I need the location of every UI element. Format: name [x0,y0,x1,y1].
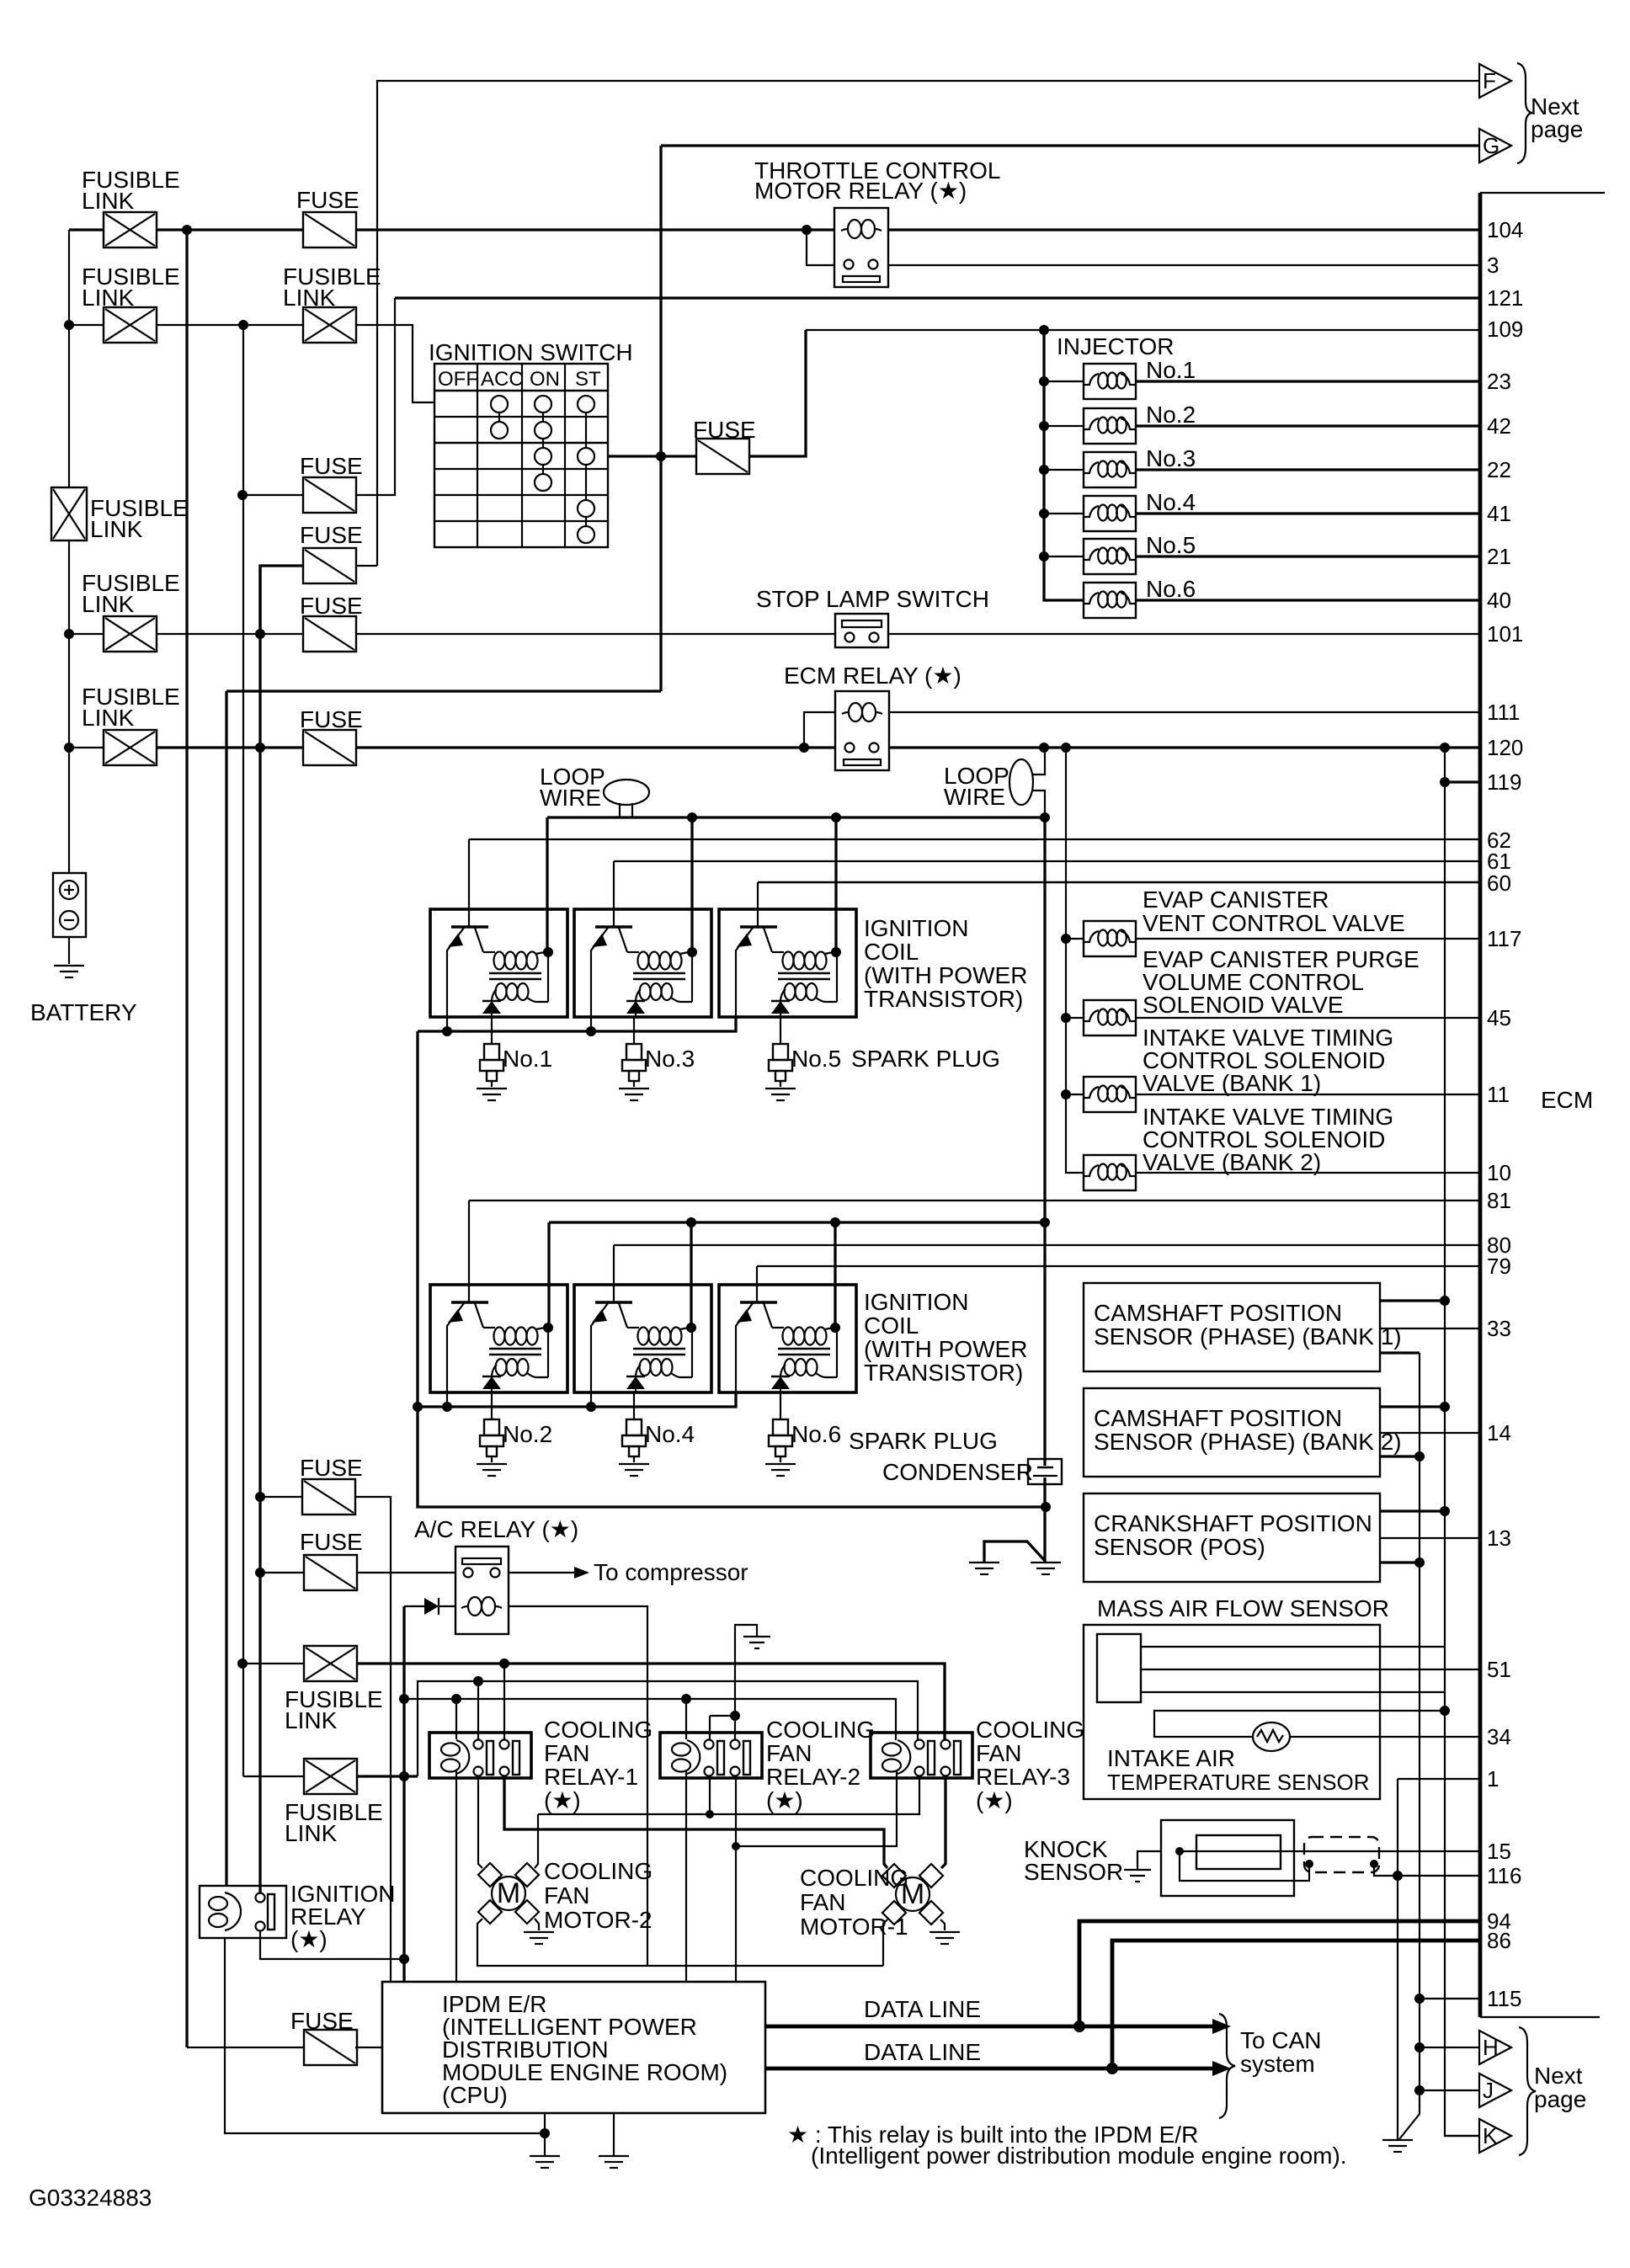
svg-text:IGNITION: IGNITION [864,915,968,941]
svg-text:G: G [1483,133,1499,158]
wire pin 115 [1420,1998,1480,1999]
wire pin109 / injector feed line [806,329,1480,331]
wire injector No.1 to ECM [1136,380,1480,382]
ignition coil 6 power transistor [736,1302,780,1328]
wire relay1 out to motor2 TL [478,1776,482,1868]
svg-text:FUSE: FUSE [296,187,360,213]
label FUSIBLE LINK row 1976 [285,1686,383,1733]
svg-text:TRANSISTOR): TRANSISTOR) [864,1360,1023,1386]
svg-text:No.5: No.5 [791,1046,841,1072]
wire injector No.3 feed [1044,469,1084,471]
label COOLING FAN MOTOR-2 [544,1858,653,1933]
A/C relay coil diode [404,1598,455,1615]
node loop wire bottom tap [1040,812,1050,823]
wire fuse3 row [242,494,303,496]
svg-text:WIRE: WIRE [540,785,601,811]
wire motor1 ground lead [940,1919,945,1930]
wire motor1 return [883,1919,887,1966]
wire y821 ignition feed line [226,689,661,692]
svg-text:VENT CONTROL VALVE: VENT CONTROL VALVE [1143,910,1405,936]
node pin 115 [1414,1994,1425,2004]
label IGNITION COIL (bottom) [864,1289,1027,1386]
svg-text:IGNITION: IGNITION [864,1289,968,1315]
wire IPDM ground 2 [613,2113,615,2155]
wire ignition relay contact out [260,1931,404,1959]
injector No.5 [1084,539,1136,574]
node loop-wire tap on pin120 line [1039,743,1049,753]
wire motor2 return [477,1919,883,1966]
node data2/pin86 [1106,2063,1118,2074]
label COOLING FAN RELAY-2 [766,1717,875,1813]
wire pin 119 stub [1445,780,1480,783]
svg-text:111: 111 [1487,700,1521,725]
cooling fan relay-1 box [429,1733,531,1778]
wire camshaft position sensor bank2 signal pin 14 [1380,1432,1480,1434]
wire camshaft position sensor bank1 signal pin 33 [1380,1328,1480,1329]
intake air temperature sensor element [1253,1722,1290,1751]
wire crankshaft position sensor signal pin 13 [1380,1537,1480,1539]
wire rail x222 (row1 to bottom fuse) [185,230,188,2047]
svg-text:Next: Next [1534,2063,1583,2089]
wire fuse4 output to riser x448 [356,565,377,567]
ignition coil 2 transformer [489,1328,548,1378]
svg-text:LINK: LINK [283,285,336,311]
svg-text:13: 13 [1487,1525,1511,1551]
wire condenser drop x1241 [1043,817,1046,1563]
svg-text:K: K [1483,2123,1498,2148]
svg-text:MOTOR-2: MOTOR-2 [544,1907,653,1933]
ground (IPDM 2) [599,2156,629,2168]
fuse ignition output [696,439,749,474]
wire ignition switch output row [608,330,806,456]
node ground tap [1414,1557,1425,1568]
fusible link row4 [104,730,157,765]
bottom fuse to IPDM [187,2047,382,2048]
wire spark-ground bus (top group) [418,1017,736,1031]
svg-text:A/C RELAY (★): A/C RELAY (★) [414,1516,578,1542]
fusible link row2b [303,307,356,343]
node injector bus No.1 [1039,376,1049,386]
wire relay2 common ground hook [710,1625,757,1739]
svg-text:page: page [1534,2086,1586,2112]
wire coil power line y971 [547,816,1045,818]
IPDM E/R box [382,1982,765,2113]
node fuse3 feed x288 [237,490,248,500]
injector No.3 [1084,452,1136,487]
wire crankshaft position sensor ground [1380,1561,1420,1563]
wire relay3 coil link y2193 [736,1771,897,1846]
label KNOCK SENSOR [1024,1836,1123,1885]
wire throttle relay coil-contact jog [807,230,834,265]
svg-text:LINK: LINK [82,705,135,731]
knock sensor element [1196,1835,1281,1869]
node solenoid bus tap on pin120 line [1061,743,1071,753]
node coil3 power tap [687,812,697,823]
svg-text:60: 60 [1487,870,1511,896]
wire relay2 out y2155 [535,1776,919,1868]
wire relay3 BR to motor1 TR [941,1776,946,1868]
fuse to F [303,548,356,583]
spark plug No.1 [480,1044,503,1087]
node coil5 power tap [831,812,841,823]
wire row1 FL to fuse [157,228,303,231]
svg-text:INTAKE AIR: INTAKE AIR [1107,1745,1235,1771]
svg-text:14: 14 [1487,1420,1511,1445]
arrow data line 2 [1212,2061,1231,2076]
svg-text:STOP LAMP SWITCH: STOP LAMP SWITCH [756,586,989,612]
node coil3 primary [687,947,697,957]
svg-text:TEMPERATURE SENSOR: TEMPERATURE SENSOR [1107,1770,1370,1795]
camshaft position sensor bank2 [1084,1388,1380,1477]
node condenser ground junction [1041,1502,1051,1512]
label COOLING FAN RELAY-3 [976,1717,1084,1813]
ignition coil 1 box [430,909,567,1017]
svg-text:23: 23 [1487,369,1511,394]
svg-text:10: 10 [1487,1160,1511,1185]
fusible link row 2110 [304,1759,357,1794]
ground (coil bus) with tie bar [984,1541,1046,1563]
svg-text:120: 120 [1487,735,1523,760]
ground for spark plug No.1 [477,1089,507,1100]
node throttle relay coil tap [802,225,812,235]
label Next page (bottom) [1534,2063,1586,2112]
node coil6 primary [830,1323,840,1333]
wire relay1 out to motor1 TL (y2173) [504,1776,887,1868]
wire knock sensor signal pin 15 [1180,1850,1480,1852]
wire relay2 coil drop [685,1699,687,1982]
wire to J [1420,2090,1479,2091]
node relay2-BR/relay3-coil tee [732,1842,740,1850]
svg-text:86: 86 [1487,1928,1511,1953]
wire A/C coil return riser x769 [509,1606,647,1966]
ignition coil 3 power transistor [591,927,636,952]
node condenser riser tap [1040,1217,1050,1227]
svg-text:LINK: LINK [82,285,135,311]
label INTAKE VALVE TIMING (BANK 2) [1143,1104,1393,1175]
wire pin61 base line [614,861,1480,927]
svg-text:FUSE: FUSE [300,706,363,732]
svg-text:SOLENOID VALVE: SOLENOID VALVE [1143,992,1344,1018]
wire row3 [69,633,1480,635]
node relay2 coil tap [681,1694,691,1704]
loop wire (left) [604,780,649,817]
svg-text:To CAN: To CAN [1240,2027,1321,2053]
node relay feed rail tap [399,1694,409,1704]
spark plug No.6 [769,1419,792,1462]
label LOOP WIRE (left) [540,764,605,811]
note: relay built into IPDM [787,2122,1198,2148]
node coil4 primary [686,1323,696,1333]
next-page connector K [1479,2119,1511,2153]
fuse row 1778 [302,1479,355,1515]
svg-text:No.1: No.1 [1146,357,1196,383]
wire to K [1445,2135,1479,2137]
wire emitters to bus (bottom group) [447,1392,591,1407]
node coil3 emitter tap [586,1026,596,1036]
svg-text:RELAY-2: RELAY-2 [766,1764,860,1790]
node fuse row 1778 feed [255,1492,265,1502]
wire injector No.2 feed [1044,425,1084,427]
svg-text:page: page [1531,116,1583,142]
svg-text:(WITH POWER: (WITH POWER [864,962,1027,988]
ground (knock sensor) [1124,1870,1151,1882]
wire pin81 base line [469,1201,1480,1302]
node ECM relay jog [799,743,809,753]
wire solenoid valve bus x1266 [1066,748,1084,1173]
node coil4 primary feed tap [686,1217,696,1227]
svg-text:CONDENSER: CONDENSER [882,1459,1033,1485]
svg-text:DATA LINE: DATA LINE [864,2039,981,2065]
node relay1 common feed [499,1658,509,1669]
injector No.2 [1084,408,1136,444]
EVAP canister vent control valve [1084,921,1136,956]
svg-text:FUSE: FUSE [300,522,363,548]
ignition coil 6 box [719,1285,856,1392]
node MAF/IAT tie [1440,1706,1450,1716]
ground (fan motor-2) [524,1932,554,1944]
svg-text:(★): (★) [976,1787,1013,1813]
wire fan relay top feed y1976 [357,1664,945,1740]
svg-text:(WITH POWER: (WITH POWER [864,1336,1027,1362]
wire spark leads top group [492,1017,780,1044]
node shield drain left [1305,1860,1313,1868]
node relay2 common jog [730,1711,740,1721]
wire IAT loop [1154,1711,1480,1737]
label FUSIBLE LINK row2 [82,264,180,311]
next-page connector H [1479,2031,1511,2064]
node row2 x289 [238,320,248,330]
wire solenoid 117 to ECM [1136,938,1480,940]
wire pin 1 [1398,1778,1480,1780]
wire shield/ground bus x1660 [1397,1779,1398,2139]
svg-text:33: 33 [1487,1316,1511,1341]
wire injector No.3 to ECM [1136,468,1480,471]
svg-text:(★): (★) [766,1787,803,1813]
spark plug No.3 [622,1044,646,1087]
label IPDM [442,1991,727,2108]
svg-text:FUSE: FUSE [693,417,756,443]
wire relay coil bus y2018 [404,1699,896,1740]
svg-text:OFF: OFF [438,368,478,391]
wire x496 riser [418,1681,918,1776]
wire row2 [69,325,434,402]
wire motor2 ground lead [535,1919,539,1930]
svg-text:MASS AIR FLOW SENSOR: MASS AIR FLOW SENSOR [1097,1595,1389,1621]
node ground tap [1414,1451,1425,1461]
svg-text:40: 40 [1487,588,1511,613]
node battery rail row3 [64,629,74,639]
wire relay1 feeds [478,1664,504,1739]
svg-text:21: 21 [1487,544,1511,569]
svg-text:22: 22 [1487,457,1511,482]
node coil2 emitter tap [442,1402,452,1412]
svg-text:11: 11 [1487,1082,1510,1107]
node battery rail row2 [64,320,74,330]
svg-text:BATTERY: BATTERY [30,999,137,1025]
svg-text:104: 104 [1487,217,1523,242]
label FUSIBLE LINK row2b [283,264,381,311]
ignition coil 4 box [574,1285,711,1392]
label FUSIBLE LINK row3 [82,570,180,617]
svg-text:34: 34 [1487,1724,1511,1749]
svg-text:CAMSHAFT POSITION: CAMSHAFT POSITION [1094,1405,1342,1431]
node row1/x222 junction [182,225,192,235]
svg-text:116: 116 [1487,1863,1521,1888]
node fuse row 1868 feed [255,1568,265,1578]
svg-text:No.5: No.5 [1146,532,1196,558]
wire sensor supply bus x1716 [1445,748,1479,2136]
node injector bus No.5 [1039,551,1049,562]
svg-text:FAN: FAN [800,1889,845,1915]
brace to CAN [1219,2014,1235,2118]
svg-text:121: 121 [1487,285,1523,311]
wire pin 111 coil line [888,711,1480,713]
wire pin60 base line [758,881,1480,884]
node coil1 emitter tap [442,1026,452,1036]
node injector bus tap [1039,325,1049,335]
svg-text:VALVE (BANK 2): VALVE (BANK 2) [1143,1149,1321,1175]
node row4 x309 [255,743,265,753]
svg-text:LINK: LINK [285,1707,338,1733]
svg-text:FAN: FAN [766,1740,812,1766]
svg-text:H: H [1483,2035,1499,2060]
wire injector No.1 feed [1044,381,1084,382]
wire pin 94 data line [1079,1921,1480,2026]
svg-text:COOLING: COOLING [976,1717,1084,1743]
ground (condenser) [1031,1563,1061,1574]
wire to compressor [509,1572,574,1573]
ignition coil 6 transformer [778,1328,837,1378]
fuse row 1868 [304,1555,357,1590]
wire injector No.5 feed [1044,556,1084,557]
svg-text:SENSOR: SENSOR [1024,1859,1123,1885]
wire camshaft position sensor bank1 supply [1380,1299,1445,1302]
node IPDM ground tie [540,2128,550,2138]
wire FL5 row [242,1663,304,1664]
wire pin79 base line [757,1266,1480,1302]
ignition coil 1 emitter/spark leads [446,950,448,1017]
wire to H [1420,2047,1479,2048]
label IGNITION RELAY [290,1881,395,1952]
svg-text:INJECTOR: INJECTOR [1057,333,1175,359]
MAF inner element [1097,1634,1141,1702]
wire MAF supply [1141,1646,1445,1648]
svg-text:SENSOR (POS): SENSOR (POS) [1094,1534,1265,1560]
ground (IPDM 1) [530,2156,560,2168]
brace next page (top) [1517,63,1532,163]
node coil5 primary [831,947,841,957]
ECM relay [835,691,889,770]
intake valve timing control solenoid valve bank2 [1084,1155,1136,1190]
wire camshaft position sensor bank1 ground [1380,1351,1420,1354]
node supply tap 13 [1440,1506,1450,1516]
svg-text:51: 51 [1487,1657,1511,1682]
svg-text:FUSE: FUSE [300,453,363,479]
ignition coil 1 transformer [489,952,548,1003]
label IGNITION COIL (top) [864,915,1027,1012]
wire fuse row 1868 to A/C relay [260,1572,455,1573]
svg-text:81: 81 [1487,1188,1511,1213]
svg-text:LINK: LINK [82,188,135,214]
wire row1 battery to FL [69,228,104,231]
wire solenoid 11 to ECM [1136,1094,1480,1095]
fuse row1 [303,212,356,248]
node row3 x309 [255,629,265,639]
ignition coil 5 secondary diode [771,1001,790,1014]
wire shield drain to pin 116 [1374,1864,1480,1876]
node coil2 primary [543,1323,553,1333]
node data1/pin94 [1073,2020,1085,2032]
svg-text:No.4: No.4 [645,1421,695,1447]
wire rail x288 (row2 to FL6) [242,325,244,1776]
svg-text:RELAY-1: RELAY-1 [544,1764,638,1790]
ground (fan relay-2 common) [743,1637,770,1648]
wire spark-ground bus (bottom group) [418,1392,736,1407]
node solenoid bus 117 [1061,934,1071,944]
wire FL6 row [243,1776,304,1777]
svg-text:IGNITION SWITCH: IGNITION SWITCH [429,339,633,365]
wire knock sensor ground lead [1137,1851,1161,1869]
wire rail x785 (G line down to y821) [661,146,1479,691]
svg-text:VALVE (BANK 1): VALVE (BANK 1) [1143,1070,1321,1096]
wire injector No.5 to ECM [1136,555,1480,557]
node y2155 tee [706,1810,714,1818]
wire solenoid 10 to ECM [1136,1172,1480,1174]
ignition switch column headers [438,368,601,391]
ignition coil 2 power transistor [447,1302,492,1328]
ignition coil 3 secondary diode [626,1001,645,1014]
cooling fan motor-1 [882,1864,943,1925]
node coil4 emitter tap [586,1402,596,1412]
svg-text:No.1: No.1 [503,1046,552,1072]
svg-text:F: F [1483,68,1496,93]
knock shield (dashed) [1304,1837,1379,1872]
svg-text:SENSOR (PHASE) (BANK 1): SENSOR (PHASE) (BANK 1) [1094,1323,1402,1350]
svg-text:(CPU): (CPU) [442,2082,508,2108]
label COOLING FAN RELAY-1 [544,1717,653,1813]
ignition coil 5 box [719,909,856,1017]
svg-text:FUSE: FUSE [300,1455,363,1481]
svg-text:FUSE: FUSE [300,1529,363,1555]
svg-text:COOLING: COOLING [544,1717,653,1743]
svg-text:FUSE: FUSE [290,2008,354,2034]
ignition coil 5 power transistor [736,927,780,952]
ignition coil 4 power transistor [591,1302,636,1328]
throttle control motor relay [834,208,888,287]
fuse IPDM [304,2030,357,2065]
spark plug No.2 [480,1419,503,1462]
label FUSIBLE LINK (vertical link) [90,495,189,542]
arrow data line 1 [1212,2019,1231,2034]
node x480 junctions [399,1954,409,1964]
EVAP canister purge volume control solenoid valve [1084,1000,1136,1036]
ignition coil 5 transformer [778,952,837,1003]
node supply tap 33 [1440,1296,1450,1306]
ignition switch contact links [499,404,586,535]
svg-text:MOTOR-1: MOTOR-1 [800,1914,908,1940]
ignition coil 6 secondary diode [771,1376,790,1389]
wire camshaft position sensor bank2 ground [1380,1455,1420,1457]
knock sensor outer box [1161,1820,1294,1896]
label THROTTLE CONTROL MOTOR RELAY [754,157,1000,204]
spark plug No.4 [622,1419,646,1462]
wire coil1/3/5 primary feeds [547,817,836,952]
svg-text:TRANSISTOR): TRANSISTOR) [864,986,1023,1012]
wire pin80 base line [614,1245,1480,1302]
node sensor supply tap on pin120 line [1440,743,1450,753]
battery [53,873,86,964]
camshaft position sensor bank1 [1084,1283,1380,1371]
